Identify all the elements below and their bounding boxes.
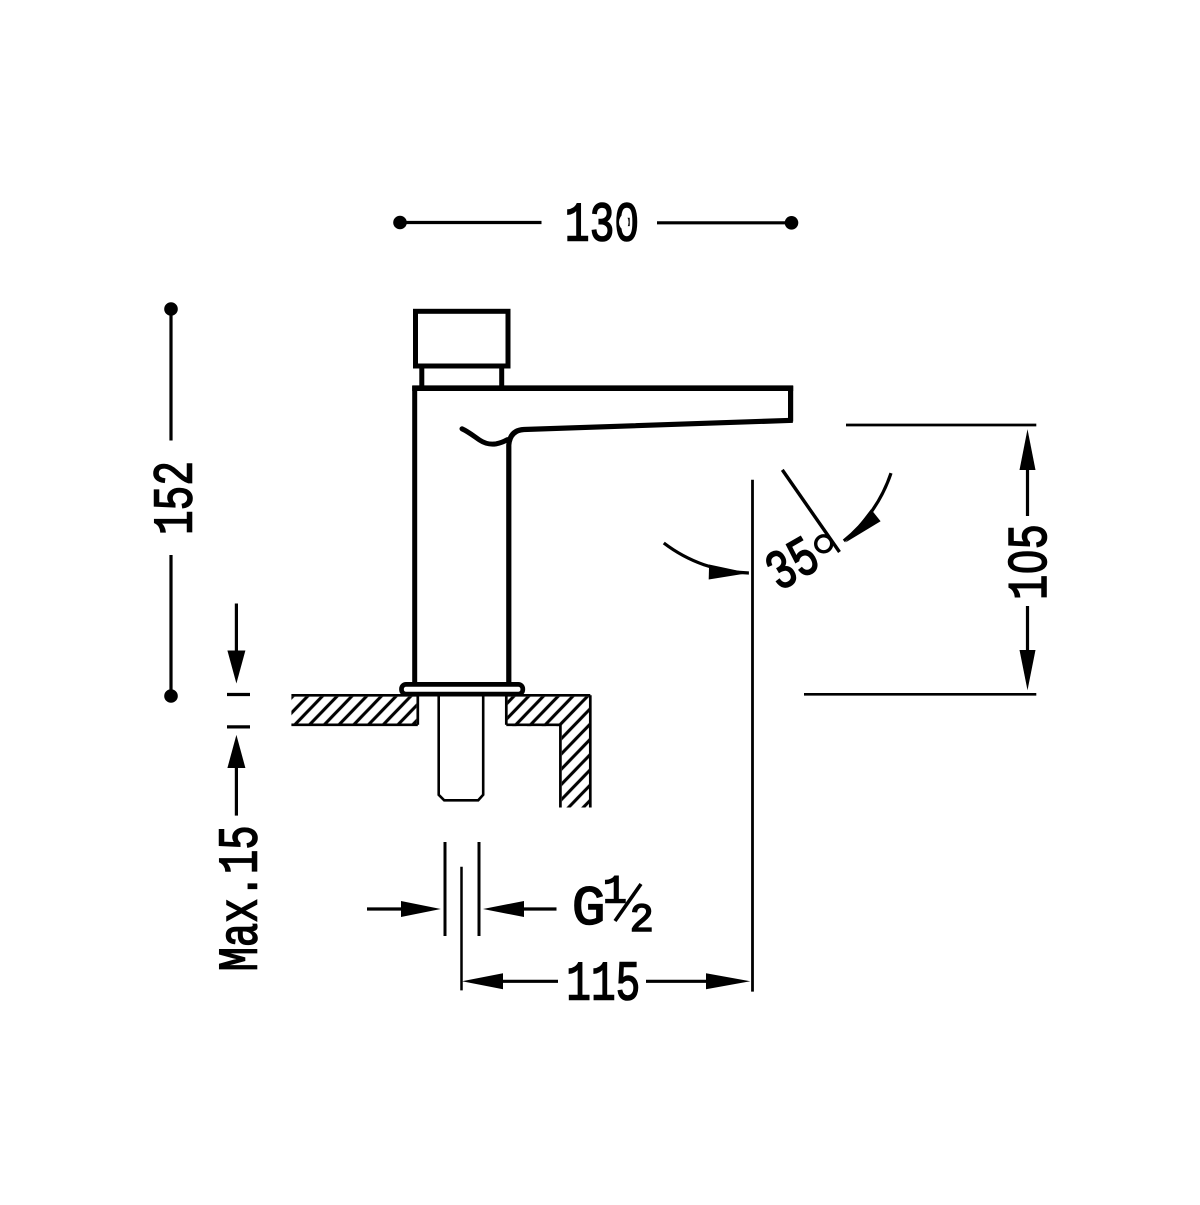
35 degree vertical reference line [751, 480, 754, 992]
spout top line [412, 385, 793, 391]
35 degree label degree ring [816, 536, 832, 552]
dimension 130 left dot [393, 216, 407, 230]
tail pipe centerline [460, 867, 463, 991]
spout outlet wavy detail [462, 429, 508, 444]
counter right slab hole edge [505, 695, 508, 725]
svg-text:152: 152 [144, 461, 208, 535]
spout underside sloping edge and body right edge [509, 420, 793, 682]
svg-text:115: 115 [566, 953, 640, 1017]
dimension 105 bottom extension line [804, 693, 1036, 696]
dimension 105 down arrowhead [1020, 650, 1036, 690]
counter left slab bottom line [291, 723, 417, 726]
G1/2 left arrowhead [401, 901, 441, 917]
base flange [402, 684, 523, 694]
counter right slab hatch fill [508, 697, 589, 808]
counter left slab right edge [416, 695, 419, 725]
Max.15 down arrow line [235, 604, 238, 653]
35 degree left curved arrow arc [664, 543, 749, 573]
dimension 152 lower line [169, 555, 172, 692]
dimension 130 right dot [785, 216, 799, 230]
dimension 152 upper line [169, 313, 172, 441]
35 degree inclined line [782, 470, 839, 552]
body left edge [412, 386, 417, 683]
Max.15 lower tick [227, 725, 250, 728]
G1/2 left tick [444, 842, 447, 936]
svg-text:Max.15: Max.15 [210, 825, 274, 971]
dimension 130 right line [657, 221, 789, 224]
Max.15 down arrowhead [227, 651, 245, 684]
G1/2 right tick [478, 842, 481, 936]
svg-text:130: 130 [565, 194, 640, 258]
handle neck right line [499, 366, 504, 387]
Max.15 up arrowhead [227, 735, 245, 768]
dimension 115 right line [646, 980, 706, 983]
counter right slab outer right edge [589, 695, 592, 807]
dimension 152 top dot [164, 302, 178, 316]
faucet handle [416, 311, 509, 366]
dimension 115 left line [503, 980, 558, 983]
dimension 105 top extension line [846, 424, 1036, 427]
dimension 105 lower line [1026, 606, 1029, 650]
white patch over zero glyph dot in 105 [1019, 557, 1033, 567]
threaded tail pipe [439, 697, 484, 801]
dimension 130 left line [404, 221, 542, 224]
G1/2 left arrow line [367, 907, 402, 910]
dimension 152 bottom dot [164, 689, 178, 703]
G1/2 label fraction slash [615, 884, 641, 921]
35 degree right curved arrow arc [844, 473, 891, 541]
counter left slab top line [291, 694, 418, 697]
counter right slab step bottom line [506, 723, 560, 726]
counter right slab inner vertical edge [559, 725, 562, 808]
svg-text:G: G [572, 877, 606, 941]
counter right slab top line [506, 694, 590, 697]
dimension 115 left arrowhead [462, 973, 503, 989]
G1/2 right arrowhead [483, 901, 524, 917]
svg-text:2: 2 [630, 899, 654, 944]
dimension 105 up arrowhead [1020, 429, 1036, 470]
dimension 105 upper line [1026, 470, 1029, 516]
G1/2 right arrow line [524, 907, 557, 910]
35 degree left curved arrowhead [709, 565, 749, 580]
Max.15 up arrow line [235, 768, 238, 816]
dimension 115 right arrowhead [706, 973, 750, 989]
35 degree right curved arrowhead [846, 509, 881, 542]
spout right edge [788, 386, 793, 422]
white patch over zero glyph dot in 130 [619, 215, 629, 229]
counter left slab hatch fill [291, 697, 416, 724]
Max.15 upper tick [227, 693, 250, 696]
handle neck left line [419, 366, 424, 387]
